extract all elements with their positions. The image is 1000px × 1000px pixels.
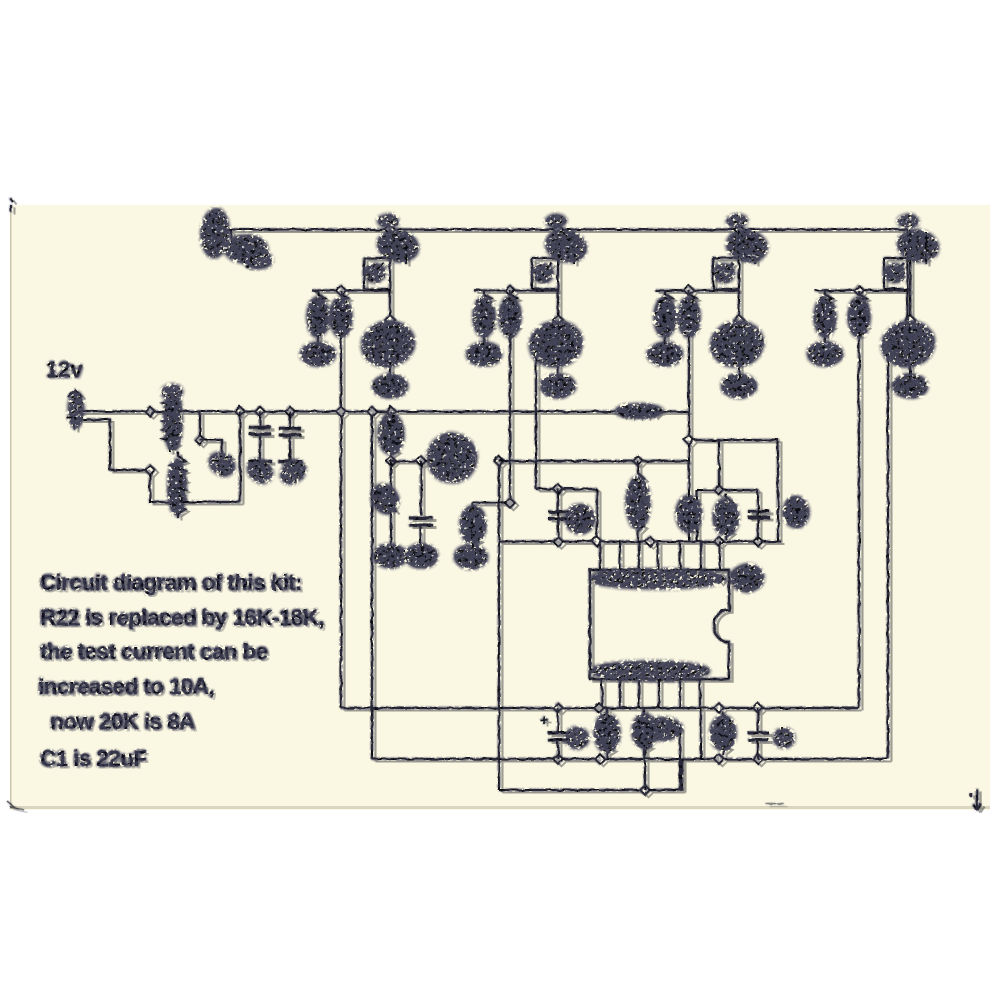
ghost offset layer	[11, 201, 985, 813]
cream scanned page	[10, 205, 990, 810]
main art	[7, 198, 981, 810]
